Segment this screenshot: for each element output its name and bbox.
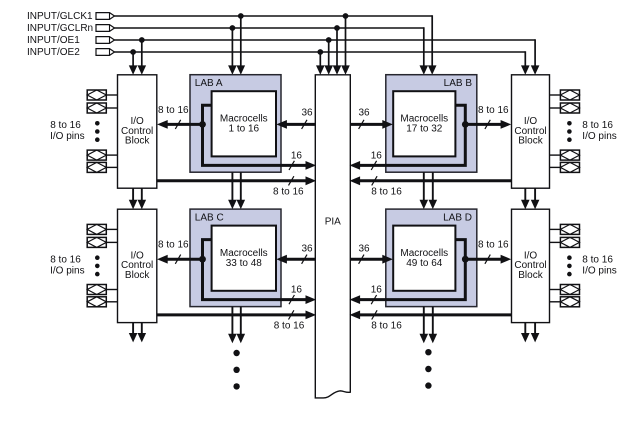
- svg-text:33 to 48: 33 to 48: [226, 258, 263, 269]
- macrocell box 33 to 48: [212, 226, 276, 291]
- bus 8 to 16: macrocells C to left I/O: [157, 240, 202, 264]
- bus 8 to 16: right I/O to PIA (bottom): [350, 310, 512, 331]
- I/O Control Block bottom-right: [512, 209, 550, 322]
- wire LAB A to LAB C: [228, 172, 245, 209]
- label Macrocells 17 to 32: [400, 114, 448, 135]
- svg-text:8 to 16: 8 to 16: [50, 255, 81, 266]
- LAB D block: [386, 209, 477, 307]
- node A feedback junction: [199, 121, 206, 128]
- svg-text:I/O pins: I/O pins: [582, 131, 616, 142]
- wire macrocell D feedback path: [350, 240, 466, 304]
- wire INPUT/OE1 branch 1 drop: [138, 40, 147, 75]
- wire INPUT/GCLRn end drop: [420, 27, 429, 75]
- bus 8 to 16: macrocells A to left I/O: [157, 105, 202, 129]
- macrocell box 49 to 64: [393, 226, 455, 291]
- ellipsis top-right I/O pins: [567, 121, 572, 142]
- svg-text:8 to 16: 8 to 16: [50, 120, 81, 131]
- node INPUT/GLCK1 junction 1: [238, 13, 244, 19]
- wire INPUT/GLCK1 end drop: [428, 15, 437, 75]
- pin INPUT/OE1: [96, 37, 115, 44]
- I/O pin symbol bottom-left 2: [87, 237, 117, 247]
- ellipsis below LAB C: [233, 350, 239, 390]
- svg-text:8 to 16: 8 to 16: [371, 187, 402, 198]
- node B feedback junction: [462, 121, 469, 128]
- wire INPUT/GLCK1 branch 2 drop: [341, 16, 350, 75]
- svg-text:INPUT/OE1: INPUT/OE1: [27, 35, 80, 46]
- wire right I/O top to bottom: [521, 188, 539, 209]
- I/O pin symbol top-left 3: [87, 150, 117, 160]
- wire INPUT/OE1 rail: [115, 39, 536, 41]
- PIA block: [315, 75, 350, 398]
- svg-text:Block: Block: [518, 136, 543, 147]
- svg-text:LAB A: LAB A: [195, 78, 223, 89]
- svg-text:LAB C: LAB C: [195, 212, 224, 223]
- bus 36: PIA to macrocells B: [350, 108, 393, 129]
- svg-text:8 to 16: 8 to 16: [158, 240, 189, 251]
- wire INPUT/OE2 rail: [115, 51, 526, 53]
- label LAB C: [195, 212, 224, 223]
- I/O pin symbol bottom-right 1: [550, 224, 580, 234]
- wire INPUT/OE2 branch 2 drop: [316, 52, 325, 75]
- bus 8 to 16: macrocells B to right I/O: [465, 105, 511, 129]
- label PIA: [325, 216, 341, 227]
- bus 36: PIA to macrocells A: [276, 108, 315, 129]
- svg-text:8 to 16: 8 to 16: [478, 240, 509, 251]
- node INPUT/GCLRn junction 2: [334, 25, 340, 31]
- I/O pin symbol bottom-right 2: [550, 237, 580, 247]
- wire INPUT/GCLRn branch 1 drop: [228, 28, 237, 75]
- svg-text:36: 36: [358, 108, 370, 119]
- label I/O Control Block bottom-left: [121, 250, 153, 281]
- svg-text:LAB D: LAB D: [443, 212, 472, 223]
- svg-text:49 to 64: 49 to 64: [406, 258, 443, 269]
- LAB B block: [386, 75, 477, 173]
- LAB C block: [190, 209, 281, 307]
- svg-text:INPUT/GCLRn: INPUT/GCLRn: [27, 23, 93, 34]
- wire macrocell B feedback path: [350, 105, 466, 170]
- svg-text:8 to 16: 8 to 16: [371, 320, 402, 331]
- label 8 to 16 I/O pins bottom-right: [582, 255, 616, 277]
- node C feedback junction: [199, 256, 206, 263]
- svg-text:8 to 16: 8 to 16: [158, 105, 189, 116]
- wire INPUT/OE1 end drop: [531, 39, 540, 75]
- svg-text:INPUT/GLCK1: INPUT/GLCK1: [27, 11, 93, 22]
- node INPUT/OE2 junction 1: [130, 49, 136, 55]
- label I/O Control Block bottom-right: [514, 250, 546, 281]
- wire INPUT/GLCK1 branch 1 drop: [237, 16, 246, 75]
- label LAB A: [195, 78, 223, 89]
- svg-text:LAB B: LAB B: [444, 78, 473, 89]
- label 8 to 16 I/O pins top-left: [50, 120, 84, 142]
- macrocell box 1 to 16: [212, 91, 276, 156]
- I/O pin symbol top-left 2: [87, 103, 117, 113]
- svg-text:8 to 16: 8 to 16: [582, 255, 613, 266]
- label 16 (LAB C to PIA): [289, 285, 302, 305]
- ellipsis bottom-left I/O pins: [95, 255, 100, 276]
- svg-text:1 to 16: 1 to 16: [229, 123, 260, 134]
- svg-text:8 to 16: 8 to 16: [582, 120, 613, 131]
- label I/O Control Block top-left: [121, 116, 153, 147]
- svg-text:I/O pins: I/O pins: [582, 265, 616, 276]
- svg-text:17 to 32: 17 to 32: [406, 123, 443, 134]
- svg-text:PIA: PIA: [325, 216, 341, 227]
- svg-text:16: 16: [291, 285, 303, 296]
- node INPUT/GCLRn junction 1: [230, 25, 236, 31]
- wire macrocell A feedback path: [203, 105, 317, 170]
- svg-text:8 to 16: 8 to 16: [478, 105, 509, 116]
- node D feedback junction: [462, 256, 469, 263]
- label INPUT/OE2: [27, 47, 80, 58]
- wire INPUT/OE2 end drop: [521, 51, 530, 75]
- wire bottom-left I/O continuation down: [129, 323, 146, 343]
- svg-text:16: 16: [371, 150, 383, 161]
- bus 36: PIA to macrocells C: [276, 243, 315, 263]
- svg-text:8 to 16: 8 to 16: [274, 320, 305, 331]
- ellipsis below LAB D: [425, 349, 431, 389]
- wire LAB B to LAB D: [420, 172, 438, 209]
- svg-text:36: 36: [301, 108, 313, 119]
- svg-text:Block: Block: [518, 270, 543, 281]
- I/O pin symbol bottom-left 3: [87, 285, 117, 295]
- label 8 to 16 I/O pins bottom-left: [50, 255, 84, 277]
- macrocell box 17 to 32: [393, 91, 455, 156]
- bus 36: PIA to macrocells D: [350, 243, 393, 263]
- node INPUT/OE2 junction 2: [317, 49, 323, 55]
- I/O pin symbol top-right 1: [550, 90, 580, 100]
- pin INPUT/OE2: [96, 49, 115, 56]
- wire INPUT/OE1 branch 2 drop: [324, 40, 333, 75]
- wire INPUT/GLCK1 rail: [115, 15, 433, 17]
- I/O pin symbol top-right 4: [550, 162, 580, 172]
- bus 8 to 16: macrocells D to right I/O: [465, 240, 511, 264]
- label Macrocells 33 to 48: [220, 248, 268, 269]
- bus 8 to 16: right I/O to PIA: [350, 176, 512, 197]
- label 16 (LAB A to PIA): [289, 150, 302, 170]
- I/O Control Block bottom-left: [118, 209, 157, 322]
- ellipsis bottom-right I/O pins: [567, 255, 572, 276]
- I/O pin symbol top-right 2: [550, 103, 580, 113]
- svg-text:16: 16: [291, 150, 303, 161]
- svg-text:INPUT/OE2: INPUT/OE2: [27, 47, 80, 58]
- label 16 (LAB D to PIA): [371, 285, 383, 305]
- wire left I/O top to bottom: [129, 188, 146, 209]
- wire LAB D continuation down: [420, 307, 438, 344]
- svg-text:I/O pins: I/O pins: [50, 265, 84, 276]
- svg-text:I/O pins: I/O pins: [50, 131, 84, 142]
- bus 8 to 16: left I/O to PIA: [157, 176, 316, 197]
- bus 8 to 16: left I/O to PIA (bottom): [157, 310, 316, 331]
- label 16 (LAB B to PIA): [371, 150, 383, 170]
- wire macrocell C feedback path: [203, 240, 317, 304]
- label I/O Control Block top-right: [514, 116, 546, 147]
- wire bottom-right I/O continuation down: [521, 323, 539, 343]
- label 8 to 16 I/O pins top-right: [582, 120, 616, 142]
- pin INPUT/GCLRn: [96, 25, 115, 32]
- label INPUT/GCLRn: [27, 23, 93, 34]
- I/O pin symbol top-right 3: [550, 150, 580, 160]
- wire INPUT/GCLRn branch 2 drop: [333, 28, 342, 75]
- label Macrocells 1 to 16: [220, 114, 268, 135]
- I/O pin symbol bottom-left 4: [87, 297, 117, 307]
- label INPUT/OE1: [27, 35, 80, 46]
- svg-text:8 to 16: 8 to 16: [273, 187, 304, 198]
- I/O pin symbol top-left 4: [87, 162, 117, 172]
- I/O pin symbol bottom-left 1: [87, 224, 117, 234]
- LAB A block: [190, 75, 281, 173]
- I/O pin symbol bottom-right 3: [550, 285, 580, 295]
- label LAB B: [444, 78, 473, 89]
- pin INPUT/GLCK1: [96, 13, 115, 20]
- ellipsis top-left I/O pins: [95, 121, 100, 142]
- wire LAB C continuation down: [228, 307, 245, 344]
- node INPUT/OE1 junction 2: [326, 37, 332, 43]
- node INPUT/GLCK1 junction 2: [343, 13, 349, 19]
- node INPUT/OE1 junction 1: [139, 37, 145, 43]
- I/O Control Block top-left: [118, 75, 157, 188]
- svg-text:36: 36: [358, 243, 370, 254]
- label Macrocells 49 to 64: [400, 248, 448, 269]
- label LAB D: [443, 212, 472, 223]
- I/O pin symbol top-left 1: [87, 90, 117, 100]
- svg-text:36: 36: [301, 243, 313, 254]
- I/O pin symbol bottom-right 4: [550, 297, 580, 307]
- svg-text:Block: Block: [125, 136, 150, 147]
- svg-text:16: 16: [371, 285, 383, 296]
- wire INPUT/OE2 branch 1 drop: [129, 52, 138, 75]
- label INPUT/GLCK1: [27, 11, 93, 22]
- wire INPUT/GCLRn rail: [115, 27, 424, 29]
- svg-text:Block: Block: [125, 270, 150, 281]
- I/O Control Block top-right: [512, 75, 550, 188]
